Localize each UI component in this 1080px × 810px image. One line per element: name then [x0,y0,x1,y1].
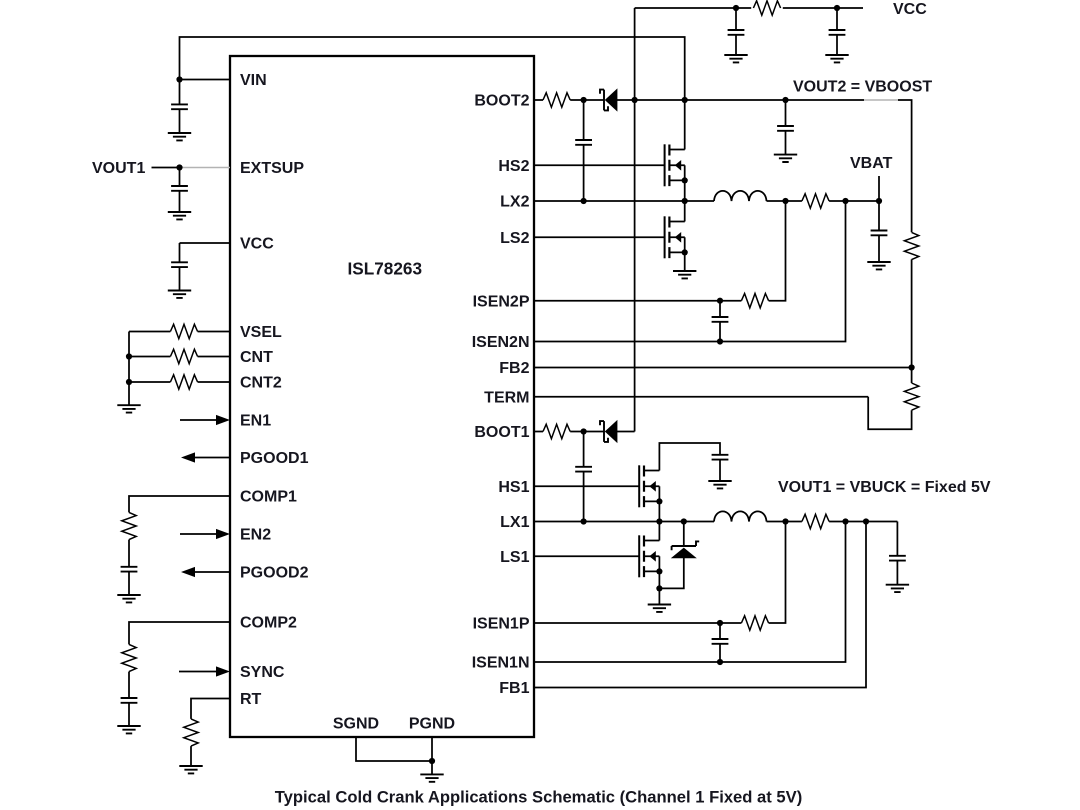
node VOUT2 cap junction [782,97,788,103]
svg-text:VBAT: VBAT [850,155,893,172]
wire LS1 source to ground [658,556,660,604]
resistor R-COMP1 [122,512,136,539]
wire COMP1 RC middle [128,540,130,595]
wire VOUT1 to EXTSUP [152,167,180,169]
wire VOUT2 gray segment [864,99,898,101]
ground VOUT2 cap [774,155,797,162]
node BOOT1 cap to LX1 junction [581,518,587,524]
resistor R-BOOT2 [543,93,570,107]
capacitor C-VBAT [871,231,888,236]
node LS1 source junction [656,568,662,574]
diode D-BOOT2 schottky [600,88,617,111]
wire VOUT1 corner to cap [896,522,898,585]
node ISEN2N cap junction [717,338,723,344]
wire VOUT2 corner down [898,100,912,232]
wire RT [191,699,230,719]
svg-text:SGND: SGND [333,716,379,733]
resistor R-LX2 sense [802,194,829,208]
node FB2 junction [909,364,915,370]
resistor R-LX1 sense [802,514,829,528]
wire ISEN2N row [534,201,846,342]
node LS2 source junction [682,249,688,255]
svg-text:ISEN2N: ISEN2N [472,334,530,351]
resistor R-VCCRAIL [753,1,780,15]
wire VSEL rail vertical [128,332,130,406]
ground LS1 source [648,605,671,612]
node VIN junction [176,76,182,82]
wire freewheel diode cathode lead [683,522,685,547]
resistor R-COMP2 [122,644,136,671]
svg-text:LS1: LS1 [500,549,529,566]
resistor R-CNT2 [170,375,197,389]
svg-text:ISL78263: ISL78263 [348,259,423,279]
ground VBAT cap [867,262,890,269]
capacitor C-VCC [171,262,188,267]
resistor R-RT [184,719,198,746]
node EXTSUP junction [176,164,182,170]
wire freewheel diode anode return [659,558,683,588]
transistor Q-LS1 [639,535,659,577]
svg-text:SYNC: SYNC [240,664,285,681]
wire TERM row [534,396,868,398]
wire VCC rail cap2 lead [836,8,838,55]
wire COMP1 [129,496,230,512]
svg-text:COMP2: COMP2 [240,615,297,632]
node HS1 source junction [656,498,662,504]
wire FB2 divider middle [911,259,913,383]
wire ISEN1N row [534,522,846,663]
node VCC rail junction 2 [834,5,840,11]
wire VCC cap lead [179,243,181,291]
svg-text:EXTSUP: EXTSUP [240,160,304,177]
node VCC rail junction 1 [733,5,739,11]
capacitor C-EXTSUP [171,186,188,191]
svg-text:VOUT2 = VBOOST: VOUT2 = VBOOST [793,79,932,96]
svg-text:LS2: LS2 [500,230,529,247]
svg-text:FB1: FB1 [499,680,529,697]
svg-text:VCC: VCC [240,236,274,253]
svg-text:HS1: HS1 [498,479,529,496]
resistor R-FB2 bottom [904,383,918,410]
wire LS1 gate [534,555,639,557]
svg-text:TERM: TERM [484,389,529,406]
node ISEN1N cap junction [717,659,723,665]
wire FB2 divider bottom to TERM [868,397,911,430]
capacitor C-VCCRAIL2 [829,30,846,35]
wire COMP2 RC middle [128,672,130,726]
node CNT junction [126,353,132,359]
wire ISEN1P row [534,522,786,624]
svg-text:CNT2: CNT2 [240,375,282,392]
wire BOOT1 pin lead [534,431,604,433]
svg-text:PGOOD1: PGOOD1 [240,450,309,467]
ground VIN cap [168,133,191,140]
transistor Q-LS2 [665,216,685,258]
ground LS2 source [673,271,696,278]
ground VCC rail cap1 [724,55,747,62]
resistor R-VSEL [170,324,197,338]
node VBAT junction [876,198,882,204]
capacitor C-VCCRAIL1 [728,30,745,35]
wire BOOT1 diode anode to VCC bus [613,431,634,433]
svg-text:PGND: PGND [409,716,455,733]
node LX2 fet junction [682,198,688,204]
svg-text:Typical Cold Crank Application: Typical Cold Crank Applications Schemati… [275,787,802,806]
node LS1 diode return junction [656,585,662,591]
svg-text:LX2: LX2 [500,194,529,211]
svg-text:VOUT1: VOUT1 [92,160,145,177]
wire LS2 gate [534,236,665,238]
wire PGOOD2 arrow [194,571,230,573]
inductor L2 [714,191,767,201]
wire HS1 drain to top cap [659,443,720,481]
node HS2 source junction [682,177,688,183]
diode D-BOOT1 schottky [600,420,617,443]
svg-text:ISEN1P: ISEN1P [473,616,530,633]
capacitor C-VIN [171,104,188,109]
node ISEN2P cap junction [717,298,723,304]
wire ISEN2P cap leads [719,301,721,342]
node BOOT2 cap junction [581,97,587,103]
wire VCC vertical bus to BOOT1 [634,8,636,432]
wire SYNC arrow [179,671,217,673]
wire VIN pin [180,79,231,81]
wire VIN cap lead [179,80,181,134]
wire VOUT2 row [685,99,864,101]
wire EXTSUP cap lead [179,168,181,213]
wire EXTSUP gray segment [180,167,231,169]
resistor R-ISEN1P [741,616,768,630]
node CNT2 junction [126,379,132,385]
diode D-LS1 schottky freewheel [671,541,699,558]
transistor Q-HS2 [665,144,685,186]
node LX2 sense junction [842,198,848,204]
node PGND junction [429,758,435,764]
wire LS2 source to ground [684,237,686,271]
wire EN1 arrow [180,419,217,421]
ground VOUT1 cap [886,585,909,592]
capacitor C-HS1 [712,455,729,460]
transistor Q-HS1 [639,465,659,507]
svg-text:VOUT1 = VBUCK = Fixed 5V: VOUT1 = VBUCK = Fixed 5V [778,479,991,496]
node BOOT2 cap to LX2 junction [581,198,587,204]
svg-text:EN1: EN1 [240,413,271,430]
wire CNT row [129,356,230,358]
wire HS1 source to LX1 to LS1 drain [658,486,660,540]
ground HS1 cap [708,481,731,488]
wire ISEN1P cap leads [719,623,721,662]
node LX1 fet junction [656,518,662,524]
ground PGND [420,774,443,781]
wire VBAT cap leads [878,201,880,262]
capacitor C-BOOT2 [575,140,592,145]
node LX2 inductor junction [782,198,788,204]
wire VIN to top rail to HS2 drain [180,37,685,150]
wire FB1 row [534,522,866,688]
svg-text:COMP1: COMP1 [240,489,297,506]
wire EN2 arrow [180,533,217,535]
capacitor C-ISEN2 [712,317,729,322]
wire VBAT stub [878,176,880,201]
wire COMP2 [129,622,230,644]
wire VCC top rail [635,7,863,9]
wire BOOT2 cap leads [583,100,585,201]
wire ISEN2P row [534,201,786,301]
wire VCC rail cap1 lead [735,8,737,55]
node BOOT1 cap junction [581,428,587,434]
ground VCC cap [168,291,191,298]
node LX1 sense junction [842,518,848,524]
wire RT resistor lead [190,746,192,766]
ground COMP2 [117,726,140,733]
resistor R-CNT [170,349,197,363]
wire HS2 gate [534,164,665,166]
wire PGOOD1 arrow [194,457,230,459]
capacitor C-VOUT1 [889,556,906,561]
svg-text:FB2: FB2 [499,360,529,377]
node LX1 diode junction [681,518,687,524]
wire VCC pin [180,242,231,244]
svg-text:LX1: LX1 [500,514,529,531]
svg-text:EN2: EN2 [240,527,271,544]
svg-text:VCC: VCC [893,1,927,18]
wire FB2 row [534,367,912,369]
node ISEN1P cap junction [717,620,723,626]
ground COMP1 [117,595,140,602]
wire LX1 row [534,521,897,523]
inductor L1 [714,511,767,521]
node BOOT2 VIN drop junction [682,97,688,103]
capacitor C-COMP1 [121,567,138,572]
capacitor C-BOOT1 [575,467,592,472]
wire LX2 row [534,200,879,202]
resistor R-FB2 top [904,232,918,259]
svg-text:VIN: VIN [240,72,267,89]
node BOOT2 VCC bus junction [632,97,638,103]
capacitor C-ISEN1 [712,639,729,644]
wire CNT2 row [129,381,230,383]
svg-text:RT: RT [240,691,262,708]
wire BOOT1 cap leads [583,432,585,522]
wire PGND down [431,737,433,774]
ground VSEL rail [117,405,140,412]
svg-text:ISEN2P: ISEN2P [473,293,530,310]
ground RT [179,766,202,773]
svg-text:CNT: CNT [240,349,273,366]
node VOUT1 fb junction [863,518,869,524]
ground EXTSUP cap [168,212,191,219]
svg-text:PGOOD2: PGOOD2 [240,565,309,582]
capacitor C-VOUT2 [777,126,794,131]
svg-text:ISEN1N: ISEN1N [472,655,530,672]
wire VSEL row [129,331,230,333]
svg-text:BOOT2: BOOT2 [474,93,529,110]
wire BOOT2 pin lead [534,99,604,101]
ground VCC rail cap2 [825,55,848,62]
wire HS1 gate [534,485,639,487]
op-amp U1 ISL78263 IC body [230,56,534,737]
resistor R-BOOT1 [543,424,570,438]
svg-text:HS2: HS2 [498,158,529,175]
wire SGND down and over [356,737,432,761]
node LX1 inductor junction [782,518,788,524]
wire BOOT2 diode anode [613,99,684,101]
svg-text:VSEL: VSEL [240,324,282,341]
wire VOUT2 cap leads [785,100,787,155]
resistor R-ISEN2P [741,294,768,308]
svg-text:BOOT1: BOOT1 [474,424,529,441]
wire HS2 source to LX2 to LS2 drain [684,165,686,221]
capacitor C-COMP2 [121,698,138,703]
